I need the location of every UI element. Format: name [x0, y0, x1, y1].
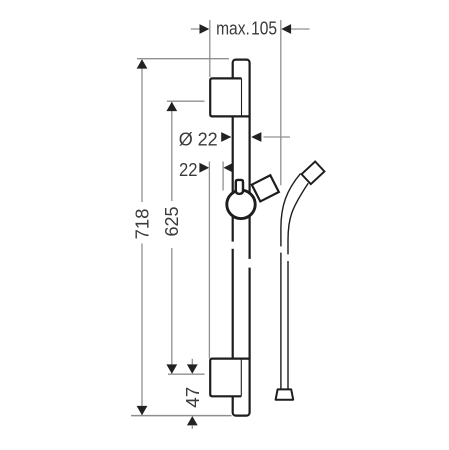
node: max.105 right arrowhead	[281, 24, 291, 34]
wire: max.105 left extension line	[209, 20, 211, 77]
svg-text:718: 718	[132, 209, 152, 240]
slider handle holder (angled)	[252, 175, 279, 201]
node: 625 top arrowhead	[166, 102, 177, 111]
hose bottom end cone	[276, 389, 294, 399]
node: diameter22 right arrowhead	[251, 132, 261, 142]
wire: 22 right extension line	[222, 162, 224, 191]
wire: 718 bottom reference line	[131, 415, 232, 417]
node: 22 right arrowhead	[223, 163, 233, 173]
wire: 625 top reference line	[167, 100, 205, 102]
svg-text:Ø 22: Ø 22	[179, 129, 218, 149]
bar break marks	[230, 242, 235, 249]
svg-text:625: 625	[162, 207, 182, 237]
node: 22 left arrowhead	[199, 163, 209, 173]
wire: diameter22 right arrow tail	[264, 136, 291, 138]
slider roundel	[227, 190, 255, 218]
node: 47 top arrowhead with stem	[191, 359, 193, 366]
node: max.105 left arrowhead	[200, 24, 210, 34]
wire: max.105 right arrow tail	[291, 28, 310, 30]
top wall mount plate	[210, 78, 250, 116]
node: 625 bottom arrowhead	[166, 364, 177, 373]
hose top connector (conical nut)	[302, 161, 325, 184]
svg-text:22: 22	[179, 160, 198, 180]
svg-text:47: 47	[183, 387, 203, 408]
slide bar (wall bar)	[233, 60, 250, 416]
wire: 22 right arrow tail	[233, 167, 244, 169]
wire: 625 dimension line lower segment	[171, 248, 173, 374]
node: 47 bottom arrowhead with stem	[187, 416, 198, 425]
node: 718 top arrowhead	[137, 59, 148, 68]
wire: 625 bottom reference line	[168, 373, 205, 375]
node: diameter22 left arrowhead	[221, 132, 231, 142]
wire: 625 dimension line upper segment	[171, 102, 173, 201]
wire: 718 dimension line upper segment	[141, 60, 143, 202]
shower hose	[279, 173, 308, 390]
slider release pin	[236, 180, 243, 194]
wire: max.105 left arrow tail	[191, 28, 201, 30]
wire: max.105 right extension line	[280, 20, 282, 185]
bottom wall mount plate	[210, 359, 249, 397]
svg-text:max. 105: max. 105	[216, 19, 277, 39]
node: 718 bottom arrowhead	[137, 406, 148, 415]
wire: 718 dimension line lower segment	[141, 244, 143, 416]
hose break marks	[279, 246, 282, 252]
wire: 22 left extension line (wall plane)	[208, 162, 210, 359]
wire: 718 top reference line	[137, 58, 229, 60]
